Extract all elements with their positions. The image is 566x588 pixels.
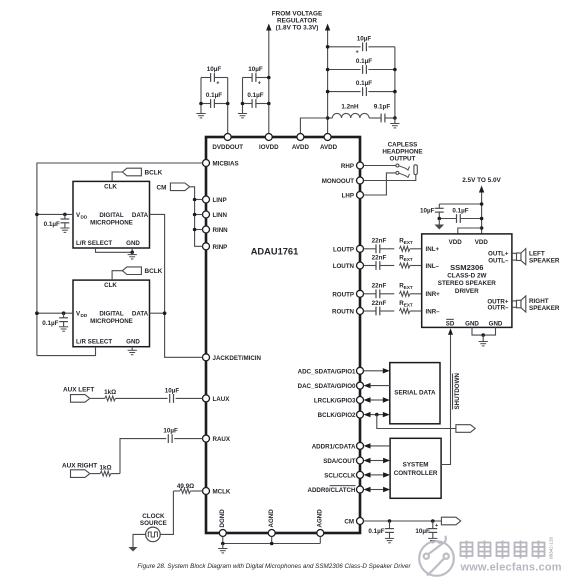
svg-text:REGULATOR: REGULATOR [277, 18, 317, 25]
capacitor 10uF (SSM2306 supply) [439, 203, 481, 205]
ground (SSM2306) [479, 341, 488, 343]
svg-text:MCLK: MCLK [213, 489, 231, 496]
pin RAUX [203, 435, 210, 442]
svg-text:MICBIAS: MICBIAS [213, 161, 239, 168]
pin CM [357, 518, 364, 525]
pin ADDR1/CDATA [357, 442, 364, 449]
wire RHP to jack switch [364, 165, 396, 167]
svg-text:JACKDET/MICIN: JACKDET/MICIN [213, 355, 262, 362]
pin ADC_SDATA/GPIO1 [357, 367, 364, 374]
svg-text:CM: CM [344, 519, 354, 526]
svg-text:1kΩ: 1kΩ [104, 389, 116, 396]
svg-text:LINN: LINN [213, 212, 228, 219]
node BCLK tag 2 [122, 267, 141, 275]
svg-text:0.1µF: 0.1µF [44, 221, 60, 228]
capacitor 0.1uF (AVDD a) [328, 69, 361, 71]
wire AUX LEFT [90, 397, 105, 399]
svg-text:SPEAKER: SPEAKER [529, 257, 560, 264]
svg-text:AGND: AGND [317, 509, 324, 528]
resistor 49.9Ohm (MCLK) [180, 489, 191, 494]
wire SSM2306 VDD rail with up arrow [481, 192, 483, 234]
svg-text:IOVDD: IOVDD [259, 144, 279, 151]
wire MIC1 GND pin [131, 248, 133, 252]
junction dots DVDDOUT caps [199, 102, 203, 106]
svg-text:MICROPHONE: MICROPHONE [90, 219, 133, 226]
svg-text:49.9Ω: 49.9Ω [177, 483, 194, 490]
pin DAC_SDATA/GPIO0 [357, 382, 364, 389]
svg-text:SSM2306: SSM2306 [450, 263, 483, 272]
svg-text:RINN: RINN [213, 227, 229, 234]
pin LOUTP [357, 245, 364, 252]
svg-text:DVDDOUT: DVDDOUT [212, 144, 243, 151]
svg-text:EXT: EXT [404, 302, 413, 307]
pin AGND 1 (rotated label) [268, 530, 275, 537]
svg-text:10µF: 10µF [357, 36, 372, 43]
resistor REXT [399, 309, 410, 314]
svg-text:0.1µF: 0.1µF [368, 528, 384, 535]
resistor REXT [399, 246, 410, 251]
digital microphone MIC1 box [73, 181, 150, 248]
wire MIC2 GND pin [131, 347, 133, 351]
svg-text:9.1pF: 9.1pF [374, 104, 391, 111]
svg-text:BCLK: BCLK [145, 268, 163, 275]
svg-text:22nF: 22nF [372, 238, 387, 245]
junction dots IOVDD caps [241, 102, 245, 106]
wire LHP to jack switch [364, 173, 396, 195]
pin BCLK/GPIO2 [357, 411, 364, 418]
capacitor 22nF [375, 289, 377, 298]
wire CM tag to input pins [190, 187, 203, 247]
pin LRCLK/GPIO3 [357, 397, 364, 404]
capacitor 10uF (IOVDD) [243, 77, 253, 79]
svg-text:DRIVER: DRIVER [455, 288, 479, 295]
capacitor 0.1uF (MIC2) [63, 313, 65, 318]
wire DGND/AGND ground bus [222, 537, 224, 544]
svg-text:OUTPUT: OUTPUT [390, 155, 416, 162]
wire MCLK to clock source [160, 491, 173, 534]
ground (9.1pF) [394, 118, 396, 124]
svg-text:0.1µF: 0.1µF [452, 208, 468, 215]
svg-text:SYSTEM: SYSTEM [403, 462, 429, 469]
svg-text:RIGHT: RIGHT [529, 298, 549, 305]
svg-text:INR+: INR+ [426, 291, 441, 298]
svg-text:DIGITAL: DIGITAL [99, 311, 124, 318]
svg-text:10µF: 10µF [415, 528, 430, 535]
svg-text:EXT: EXT [404, 257, 413, 262]
svg-text:MICROPHONE: MICROPHONE [90, 318, 133, 325]
svg-text:CM: CM [157, 184, 167, 191]
svg-text:ADC_SDATA/GPIO1: ADC_SDATA/GPIO1 [298, 368, 356, 375]
pin AVDD 1 [297, 134, 304, 141]
resistor REXT [399, 291, 410, 296]
svg-text:EXT: EXT [404, 285, 413, 290]
svg-text:LOUTP: LOUTP [333, 246, 354, 253]
svg-text:LOUTN: LOUTN [333, 263, 355, 270]
svg-text:OUTL–: OUTL– [488, 258, 509, 265]
pin MCLK [203, 488, 210, 495]
pin MICBIAS [203, 160, 210, 167]
resistor 1kOhm (AUX RIGHT) [100, 471, 111, 476]
system controller box [390, 438, 441, 498]
svg-text:22nF: 22nF [372, 283, 387, 290]
inductor 1.2nH [328, 117, 333, 119]
svg-text:GND: GND [126, 240, 140, 247]
svg-text:0.1µF: 0.1µF [356, 58, 372, 65]
capacitor 10uF (RAUX) [167, 434, 169, 443]
pin SDA/COUT [357, 457, 364, 464]
svg-text:BCLK: BCLK [145, 170, 163, 177]
digital microphone MIC2 box [73, 280, 150, 347]
pin LINP [203, 196, 210, 203]
wire MIC1 CLK to BCLK tag [112, 172, 122, 181]
svg-text:Figure 28. System Block Diagra: Figure 28. System Block Diagram with Dig… [137, 563, 411, 570]
pin LHP [357, 192, 364, 199]
svg-text:1.2nH: 1.2nH [341, 104, 359, 111]
svg-text:AVDD: AVDD [320, 144, 338, 151]
pin RINN [203, 226, 210, 233]
resistor 1kOhm (AUX LEFT) [105, 396, 116, 401]
svg-text:ROUTP: ROUTP [332, 291, 354, 298]
headphone jack J1 contacts [396, 164, 399, 167]
wire MIC2 L/R SELECT to MICBIAS rail [37, 347, 96, 356]
svg-text:RHP: RHP [341, 163, 354, 170]
svg-text:DATA: DATA [132, 212, 149, 219]
svg-text:SOURCE: SOURCE [140, 520, 167, 527]
wire MONOOUT to jack sleeve [364, 175, 416, 181]
svg-text:AVDD: AVDD [292, 144, 310, 151]
node BCLK tag 1 [122, 168, 141, 176]
svg-text:LINP: LINP [213, 197, 227, 204]
watermark elecfans logo circle [419, 536, 454, 576]
svg-text:L/R SELECT: L/R SELECT [76, 339, 112, 346]
svg-text:L/R SELECT: L/R SELECT [76, 240, 112, 247]
wire AUX RIGHT [90, 473, 100, 475]
ground (MIC1) [128, 254, 137, 256]
svg-text:LHP: LHP [342, 193, 354, 200]
wire ADC_SDATA arrow to serial data [364, 370, 384, 372]
capacitor 9.1pF [369, 117, 381, 119]
svg-text:10µF: 10µF [248, 66, 263, 73]
svg-text:0.1µF: 0.1µF [356, 80, 372, 87]
wire MICBIAS rail [37, 163, 203, 356]
ground (digital/analog gnd) [218, 548, 227, 550]
wire output line y=249 [364, 248, 377, 250]
pin RINP [203, 243, 210, 250]
pin MONOOUT [357, 177, 364, 184]
op-amp U1 ADAU1761 codec block [206, 137, 360, 533]
svg-text:ROUTN: ROUTN [332, 309, 355, 316]
wire CM pin to tag [364, 520, 442, 522]
svg-text:INL+: INL+ [426, 246, 440, 253]
svg-text:MONOOUT: MONOOUT [322, 178, 355, 185]
wire SDA bidirectional arrow [370, 460, 384, 462]
wire BCLK bidirectional arrow [370, 414, 384, 416]
serial data interface box [390, 363, 440, 424]
headphone jack J1 plug [414, 165, 417, 175]
wire AVDD pin1 jog [300, 118, 327, 134]
svg-text:VDD: VDD [475, 239, 489, 246]
svg-text:0.1µF: 0.1µF [206, 92, 222, 99]
svg-text:2.5V TO 5.0V: 2.5V TO 5.0V [462, 177, 501, 184]
pin DVDDOUT [224, 134, 231, 141]
svg-text:GND: GND [465, 320, 479, 327]
capacitor 22nF [375, 307, 377, 316]
capacitor 0.1uF (MIC1) [64, 214, 66, 219]
svg-text:DD: DD [81, 214, 88, 219]
wire MIC2 VDD [37, 312, 73, 314]
wire BCLK branch to tag [377, 415, 456, 429]
pin ADDR0/CLATCH (CLATCH active low) [357, 486, 364, 493]
capacitor 10uF (LAUX) [169, 394, 171, 403]
wire SCL bidirectional arrow [370, 474, 384, 476]
svg-text:LEFT: LEFT [529, 250, 545, 257]
pin RHP [357, 162, 364, 169]
watermark chinese characters [461, 541, 545, 559]
pin LOUTN [357, 262, 364, 269]
wire DVDDOUT cap right leg to pin [227, 78, 229, 134]
capacitor 10uF (AVDD) [328, 46, 361, 48]
resistor REXT [399, 263, 410, 268]
svg-text:EXT: EXT [404, 240, 413, 245]
svg-text:HEADPHONE: HEADPHONE [382, 148, 422, 155]
capacitor 10uF (DVDDOUT) [201, 77, 211, 79]
svg-text:CLK: CLK [104, 282, 117, 289]
pin AGND 2 (rotated label) [317, 530, 324, 537]
wire DAC_SDATA arrow to pin [370, 385, 390, 387]
svg-text:CLASS-D 2W: CLASS-D 2W [447, 273, 486, 280]
wire MIC1 L/R SELECT to GND [96, 248, 133, 252]
svg-text:INL–: INL– [426, 263, 440, 270]
capacitor 0.1uF (AVDD b) [328, 91, 361, 93]
capacitor 0.1uF (SSM2306 supply) [439, 218, 456, 220]
op-amp U2 SSM2306 class-D driver block [422, 234, 512, 328]
svg-text:RINP: RINP [213, 244, 228, 251]
svg-text:SERIAL DATA: SERIAL DATA [394, 389, 436, 396]
svg-text:SD: SD [446, 320, 455, 327]
wire MIC1 DATA to JACKDET [150, 214, 203, 357]
svg-text:CLOCK: CLOCK [142, 513, 165, 520]
wire ADDR0 bidirectional arrow [370, 489, 384, 491]
svg-text:CLK: CLK [104, 183, 117, 190]
svg-text:1kΩ: 1kΩ [99, 465, 111, 472]
svg-text:GND: GND [489, 320, 503, 327]
wire IOVDD cap left leg [242, 78, 244, 114]
pin LAUX [203, 395, 210, 402]
ground (CM 0.1uF) [385, 537, 394, 539]
svg-text:22nF: 22nF [372, 300, 387, 307]
pin IOVDD [265, 134, 272, 141]
pin DGND (rotated label) [219, 530, 226, 537]
capacitor 0.1uF (DVDDOUT) [201, 103, 211, 105]
svg-text:VDD: VDD [449, 239, 463, 246]
svg-text:SCL/CCLK: SCL/CCLK [324, 472, 356, 479]
svg-text:FROM VOLTAGE: FROM VOLTAGE [272, 11, 323, 18]
svg-text:ADDR1/CDATA: ADDR1/CDATA [312, 443, 356, 450]
svg-text:AUX RIGHT: AUX RIGHT [62, 462, 97, 469]
svg-text:0.1µF: 0.1µF [247, 92, 263, 99]
svg-text:10µF: 10µF [163, 428, 178, 435]
svg-text:RAUX: RAUX [213, 436, 231, 443]
speaker LS2 right [512, 300, 517, 302]
wire MIC2 DATA join [150, 312, 165, 314]
svg-text:DD: DD [81, 313, 88, 318]
pin ROUTP [357, 290, 364, 297]
capacitor 22nF [375, 261, 377, 270]
wire output line y=266 [364, 265, 377, 267]
svg-text:DIGITAL: DIGITAL [99, 212, 124, 219]
wire LRCLK bidirectional arrow [370, 399, 384, 401]
svg-text:0.1µF: 0.1µF [42, 320, 58, 327]
svg-text:DGND: DGND [219, 509, 226, 528]
pin ROUTN [357, 308, 364, 315]
ground (MIC2 cap) [59, 326, 68, 328]
svg-text:10µF: 10µF [165, 387, 180, 394]
svg-text:CAPLESS: CAPLESS [388, 141, 418, 148]
wire MCLK [190, 490, 202, 492]
svg-text:SDA/COUT: SDA/COUT [323, 458, 356, 465]
svg-text:STEREO SPEAKER: STEREO SPEAKER [438, 280, 497, 287]
pin LINN [203, 211, 210, 218]
svg-text:10µF: 10µF [420, 208, 435, 215]
svg-text:DATA: DATA [132, 311, 149, 318]
svg-text:CONTROLLER: CONTROLLER [394, 470, 438, 477]
speaker LS1 left [512, 252, 517, 254]
pin JACKDET/MICIN [203, 354, 210, 361]
wire AVDD supply rail with up arrow [327, 30, 329, 134]
wire DVDDOUT cap left leg [200, 78, 202, 114]
wire MIC1 VDD [37, 213, 73, 215]
capacitor 0.1uF (IOVDD) [243, 103, 253, 105]
svg-text:AUX LEFT: AUX LEFT [63, 387, 94, 394]
ground (IOVDD caps) [238, 113, 247, 115]
svg-text:www.elecfans.com: www.elecfans.com [460, 561, 562, 573]
wire SSM2306 GND pins to ground [472, 327, 496, 335]
wire IOVDD supply rail with up arrow [268, 30, 270, 134]
wire SHUTDOWN net (system controller to SD pin) [441, 333, 450, 465]
svg-text:(1.8V TO 3.3V): (1.8V TO 3.3V) [276, 25, 319, 32]
wire ADDR1 arrow to pin [370, 445, 391, 447]
capacitor 0.1uF (CM) [389, 521, 391, 529]
svg-text:AGND: AGND [268, 509, 275, 528]
svg-text:INR–: INR– [426, 308, 441, 315]
svg-text:10µF: 10µF [207, 66, 222, 73]
pin SCL/CCLK [357, 471, 364, 478]
svg-text:GND: GND [126, 339, 140, 346]
svg-text:OUTR–: OUTR– [488, 305, 510, 312]
wire output line y=311 [364, 310, 377, 312]
svg-text:SPEAKER: SPEAKER [529, 305, 560, 312]
svg-text:22nF: 22nF [372, 254, 387, 261]
wire VDD1 jog [458, 228, 482, 234]
svg-text:BCLK/GPIO2: BCLK/GPIO2 [318, 412, 356, 419]
svg-text:LAUX: LAUX [213, 396, 231, 403]
wire AVDD filter right rail [394, 47, 396, 118]
svg-text:08342-128: 08342-128 [549, 537, 554, 559]
clock source X1 [146, 527, 161, 542]
svg-text:DAC_SDATA/GPIO0: DAC_SDATA/GPIO0 [298, 383, 356, 390]
node CM tag (right) [441, 517, 460, 525]
wire output line y=294 [364, 293, 377, 295]
ground (clock source, chassis style) [129, 547, 138, 552]
svg-text:LRCLK/GPIO3: LRCLK/GPIO3 [314, 398, 356, 405]
ground (MIC1 cap) [60, 227, 69, 229]
wire clock source to ground [133, 534, 146, 547]
wire MIC2 CLK to BCLK tag [112, 271, 122, 280]
capacitor 10uF (CM) [432, 521, 434, 529]
ground (MIC2) [128, 349, 137, 351]
pin AVDD 2 [324, 134, 331, 141]
svg-text:ADDR0/CLATCH: ADDR0/CLATCH [307, 487, 356, 494]
ground (SSM supply caps, chassis style) [438, 219, 440, 225]
svg-text:ADAU1761: ADAU1761 [251, 247, 299, 257]
ground (CM 10uF) [428, 537, 437, 539]
capacitor 22nF [375, 244, 377, 253]
junction dots SSM supply [480, 202, 484, 206]
svg-text:SHUTDOWN: SHUTDOWN [454, 373, 461, 410]
node BCLK tag (right) [456, 425, 475, 433]
ground (DVDDOUT caps) [196, 113, 205, 115]
junction dots AVDD filter [326, 45, 330, 49]
